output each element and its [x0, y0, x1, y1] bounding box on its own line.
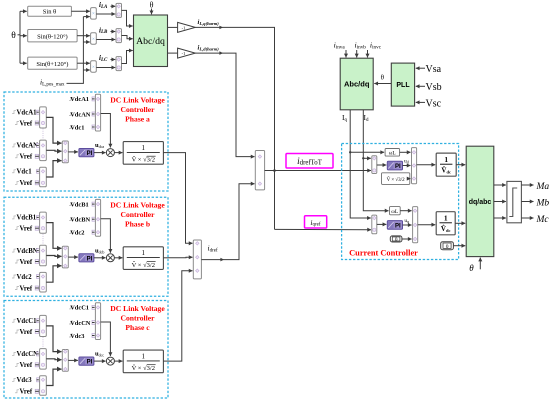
wire Iq branch to wL d	[350, 151, 384, 153]
wire mux to PI a	[68, 151, 78, 153]
svg-text:Sin(θ+120°): Sin(θ+120°)	[36, 61, 68, 68]
wire Vref3 to sum	[35, 182, 39, 184]
product block P1	[91, 8, 97, 20]
wire Vref2 to sum	[35, 261, 39, 263]
svg-text:θ: θ	[11, 31, 16, 41]
PI block c	[79, 357, 94, 365]
wire iLqharm	[195, 27, 274, 229]
wire iLC arrow	[111, 59, 116, 61]
label Vdc1 phase a	[12, 170, 16, 173]
wire idrefToT	[265, 170, 371, 172]
svg-text:1: 1	[444, 155, 448, 164]
wire gain d to dqabc	[456, 164, 465, 166]
label mini VdcC1 c	[69, 306, 73, 309]
wire dqabc out1	[494, 184, 506, 186]
label box iqref	[305, 216, 327, 228]
adder d	[412, 148, 417, 184]
block wL d	[385, 149, 400, 157]
wire sum3 to mux c	[46, 369, 61, 385]
wire iinvc in	[367, 50, 369, 57]
svg-text:VdcB1: VdcB1	[70, 201, 88, 208]
svg-text:ωL: ωL	[391, 209, 399, 215]
mini mux block b	[95, 199, 100, 236]
wire ff to adder	[409, 178, 412, 180]
wire VdcAN to sum	[37, 144, 39, 146]
wire Vsa	[416, 67, 425, 69]
sum block d	[372, 156, 377, 174]
wire mini mux to mult a	[101, 114, 111, 148]
wire Vsb	[416, 85, 425, 87]
wire Id branch to dsum	[363, 157, 371, 159]
wire mini VdcCN c	[92, 322, 95, 324]
wire P1 to SA	[96, 13, 115, 15]
label Vref3 phase c	[15, 390, 19, 393]
svg-text:Current Controller: Current Controller	[349, 248, 418, 257]
wire sum2 to mux b	[46, 255, 61, 258]
label Vref1 phase c	[15, 330, 19, 333]
wire Iq vertical	[350, 110, 371, 218]
wire gainbox out a	[163, 152, 168, 154]
svg-text:Vref: Vref	[20, 362, 33, 369]
PI block a	[79, 149, 94, 157]
wire theta into dqabc	[479, 258, 481, 270]
svg-text:Controller: Controller	[120, 105, 155, 114]
wire Abcdq1 out q	[168, 26, 178, 28]
gain -1 d	[178, 48, 196, 58]
wire Ma	[521, 184, 533, 186]
wire VdcBN to sum	[37, 250, 39, 252]
svg-text:DC Link Voltage: DC Link Voltage	[110, 304, 165, 313]
svg-text:Vref: Vref	[20, 329, 33, 336]
product block P3	[91, 61, 97, 72]
svg-text:PI: PI	[87, 256, 93, 262]
svg-text:×: ×	[92, 12, 95, 17]
svg-text:Vsa: Vsa	[426, 64, 442, 75]
block Sin theta	[28, 6, 72, 16]
svg-text:iL,d(harm): iL,d(harm)	[198, 45, 220, 52]
label Vref3 phase a	[15, 181, 19, 184]
mux block a	[62, 141, 68, 163]
gain 1/Vdc d	[436, 153, 456, 176]
wire idref return	[201, 184, 254, 260]
svg-text:VdcC1: VdcC1	[70, 305, 89, 312]
dashed box current controller	[342, 144, 459, 260]
wire sum2 to mux c	[46, 358, 61, 361]
wire SB to Abcdq in2	[122, 36, 133, 39]
svg-text:PLL: PLL	[396, 82, 410, 89]
wire theta into Abcdq1	[151, 9, 153, 15]
wire phase a out to mux	[168, 153, 193, 244]
wire Vref1 to sum	[35, 227, 39, 229]
svg-text:0: 0	[395, 237, 398, 243]
label Vref3 phase b	[15, 287, 19, 290]
wire Vsc	[416, 101, 425, 103]
label VdcCN phase c	[12, 352, 16, 355]
svg-text:Vref: Vref	[20, 120, 33, 127]
wire mult to gainbox a	[114, 152, 122, 154]
wire Vref1 to sum	[35, 122, 39, 124]
wire mux to PI b	[68, 256, 78, 258]
label VdcB1 phase b	[12, 216, 16, 219]
wire mini VdcB1 b	[92, 203, 95, 205]
svg-text:Mc: Mc	[536, 215, 550, 225]
wire sum1 to mux c	[46, 326, 61, 352]
wire PI to mult b	[94, 257, 106, 259]
svg-text:Mb: Mb	[536, 199, 550, 209]
wire wL d to adder	[400, 151, 411, 153]
svg-text:udca: udca	[95, 142, 104, 149]
transform block dq/abc	[466, 146, 494, 256]
svg-text:VdcBN: VdcBN	[70, 217, 90, 224]
svg-text:V̂ × √3/2: V̂ × √3/2	[387, 177, 405, 183]
PI block q	[387, 221, 402, 230]
wire theta to branches	[18, 34, 21, 36]
wire P3 to SC	[96, 67, 115, 69]
wire phase c out to mux	[168, 271, 193, 361]
wire dsum to PI d	[377, 164, 387, 166]
label mini Vdc1 a	[69, 126, 73, 129]
svg-text:V̂ × √3/2: V̂ × √3/2	[132, 156, 155, 164]
wire Vref3 to sum	[35, 390, 39, 392]
wire sin1 to product1	[71, 10, 89, 12]
wire VdcA1 to sum	[37, 111, 39, 113]
svg-text:Phase a: Phase a	[125, 115, 150, 124]
svg-text:Vdc3: Vdc3	[17, 377, 33, 384]
block Sin(theta-120)	[28, 30, 77, 42]
svg-text:Vdc3: Vdc3	[70, 333, 84, 340]
wire SC to Abcdq in3	[122, 51, 133, 64]
wire dqabc out3	[494, 217, 506, 219]
wire Abcdq1 out d	[168, 52, 178, 54]
svg-text:-1: -1	[182, 26, 186, 31]
label mini VdcB1 b	[69, 203, 73, 206]
gain -1 q	[178, 22, 196, 32]
label Vdc3 phase c	[12, 378, 16, 381]
svg-text:Controller: Controller	[120, 210, 155, 219]
mux block b	[62, 246, 68, 268]
wire gainbox out b	[163, 257, 168, 259]
wire iLpos_max distribution	[67, 17, 84, 84]
wire PI to mult a	[94, 152, 106, 154]
label Vref1 phase a	[15, 122, 19, 125]
svg-text:Phase c: Phase c	[125, 323, 150, 332]
sum block SB	[116, 29, 122, 43]
wire iLB arrow	[111, 31, 116, 33]
gain box 1/(Vsqrt32) c	[123, 350, 163, 373]
sum block b3	[40, 272, 47, 292]
transform block Abc/dq 2	[340, 58, 373, 110]
label VdcC1 phase c	[12, 319, 16, 322]
mux idref	[193, 240, 201, 279]
wire PLL to Abcdq2	[374, 83, 391, 85]
wire adder q to gain	[418, 224, 436, 226]
wire VdcC1 to sum	[37, 320, 39, 322]
svg-text:VdcA1: VdcA1	[70, 96, 89, 103]
sum block SA	[116, 3, 122, 17]
svg-text:Vref: Vref	[20, 285, 33, 292]
wire sum3 to mux a	[46, 161, 61, 177]
svg-text:DC Link Voltage: DC Link Voltage	[110, 201, 165, 210]
svg-text:V̂ × √3/2: V̂ × √3/2	[132, 261, 155, 269]
wire mini mux to mult c	[101, 322, 111, 356]
svg-text:Phase b: Phase b	[125, 220, 150, 229]
wire sin3 to product3	[77, 62, 90, 64]
block Sin(theta+120)	[28, 57, 77, 69]
wire mini Vdc1 a	[92, 126, 95, 128]
adder q	[413, 207, 418, 243]
wire adder d to gain	[417, 164, 436, 166]
svg-text:1: 1	[142, 249, 146, 257]
wire sum2 to mux a	[46, 149, 61, 152]
wire dqabc out2	[494, 201, 506, 203]
sum block q	[372, 215, 377, 234]
svg-text:V̂ × √3/2: V̂ × √3/2	[132, 364, 155, 372]
label mini Vdc2 b	[69, 231, 73, 234]
sum block a3	[40, 167, 47, 187]
label mini Vdc3 c	[69, 334, 73, 337]
wire gainbox out c	[163, 360, 168, 362]
label VdcBN phase b	[12, 249, 16, 252]
svg-text:VdcBN: VdcBN	[17, 248, 38, 255]
svg-text:-1: -1	[182, 51, 186, 56]
wire PI d to adder	[403, 165, 411, 167]
wire iinvb in	[356, 50, 358, 57]
svg-text:VdcB1: VdcB1	[17, 215, 37, 222]
block Vsqrt32 ff	[382, 173, 410, 185]
label mini VdcBN b	[69, 218, 73, 221]
svg-text:×: ×	[92, 65, 95, 70]
svg-text:PI: PI	[395, 224, 401, 230]
svg-text:θ: θ	[469, 263, 474, 273]
wire Vref3 to sum	[35, 287, 39, 289]
svg-text:Abc/dq: Abc/dq	[344, 80, 370, 89]
svg-text:PI: PI	[87, 360, 93, 366]
svg-text:VdcA1: VdcA1	[17, 110, 38, 117]
label VdcAN phase a	[12, 144, 16, 147]
label VdcA1 phase a	[12, 111, 16, 114]
wire mini Vdc2 b	[92, 231, 95, 233]
wire Vdc1 to sum	[37, 170, 39, 172]
label Vref2 phase b	[15, 260, 19, 263]
mini mux block a	[95, 94, 100, 131]
wire phase b out to mux	[168, 256, 193, 259]
mult circle a	[106, 149, 114, 157]
label Vref2 phase c	[15, 363, 19, 366]
svg-text:VdcC1: VdcC1	[17, 318, 38, 325]
svg-text:Vdc1: Vdc1	[70, 124, 84, 131]
wire SA to Abcdq in1	[122, 10, 133, 26]
gain box 1/(Vsqrt32) a	[123, 142, 163, 165]
wire Mb	[521, 201, 533, 203]
svg-text:Vref: Vref	[20, 259, 33, 266]
block zero q	[390, 236, 402, 242]
wire iqref horizontal	[275, 228, 372, 230]
svg-text:dq/abc: dq/abc	[469, 199, 492, 206]
block PLL	[391, 63, 414, 106]
svg-text:Ma: Ma	[536, 182, 550, 192]
svg-text:PI: PI	[395, 164, 401, 170]
wire PI to mult c	[94, 360, 106, 362]
svg-text:VdcCN: VdcCN	[17, 351, 39, 358]
wire mini Vdc3 c	[92, 335, 95, 337]
svg-text:Vsc: Vsc	[426, 98, 442, 109]
wire sin2 to product2	[77, 35, 90, 37]
wire zero q to adder	[402, 238, 412, 240]
block wL q	[390, 207, 401, 215]
svg-text:Vdc1: Vdc1	[17, 169, 33, 176]
svg-text:Vref: Vref	[20, 389, 33, 396]
wire zero2 to dqabc	[453, 245, 465, 247]
svg-text:Vdc2: Vdc2	[70, 230, 84, 237]
wire mini mux to mult b	[101, 219, 111, 253]
wire qsum to PI q	[377, 223, 387, 225]
wire sum1 to mux a	[46, 117, 61, 143]
mult circle c	[106, 357, 114, 365]
sum block a2	[40, 140, 47, 161]
gain 1/Vdc q	[436, 212, 455, 235]
wire mini VdcC1 c	[92, 306, 95, 308]
svg-text:1: 1	[142, 352, 146, 360]
sum block b1	[40, 212, 47, 233]
wire mini VdcBN b	[92, 218, 95, 220]
wire Vref2 to sum	[35, 364, 39, 366]
svg-text:×: ×	[92, 37, 95, 42]
sum block SC	[116, 57, 122, 71]
mini mux block c	[95, 303, 100, 340]
svg-text:udcc: udcc	[95, 351, 104, 358]
wire mux to PI c	[68, 359, 78, 361]
wire iLA arrow	[111, 5, 116, 7]
svg-text:Sin(θ-120°): Sin(θ-120°)	[37, 34, 68, 41]
svg-text:Abc/dq: Abc/dq	[136, 36, 165, 47]
svg-text:1: 1	[142, 144, 146, 152]
transform block Abc/dq 1	[134, 15, 168, 67]
dotted link sums c	[42, 337, 44, 348]
svg-text:Vdc2: Vdc2	[17, 274, 33, 281]
label mini VdcAN a	[69, 113, 73, 116]
wire iLdharm	[195, 53, 254, 157]
label Vref2 phase a	[15, 155, 19, 158]
svg-text:Controller: Controller	[120, 314, 155, 323]
dashed box DC controller phase a	[4, 92, 168, 191]
svg-text:Vref: Vref	[20, 226, 33, 233]
wire sum3 to mux b	[46, 266, 61, 282]
svg-text:PI: PI	[87, 151, 93, 157]
mult circle b	[106, 254, 114, 262]
wire iinva in	[345, 50, 347, 57]
label mini VdcA1 a	[69, 97, 73, 100]
wire wL q to adder	[400, 210, 411, 212]
sum block a1	[40, 107, 47, 128]
mux idref+harm	[255, 151, 264, 190]
dotted link sums a	[42, 129, 44, 140]
wire Vdc2 to sum	[37, 276, 39, 278]
dotted link sums b	[42, 234, 44, 245]
dashed box DC controller phase b	[4, 197, 168, 296]
svg-text:ud: ud	[404, 159, 409, 165]
wire VdcCN to sum	[37, 353, 39, 355]
svg-text:iL,q(harm): iL,q(harm)	[198, 19, 220, 26]
svg-text:1: 1	[444, 213, 448, 222]
PI block d	[387, 161, 402, 170]
wire mini VdcAN a	[92, 113, 95, 115]
wire gain q to dqabc	[455, 222, 465, 224]
wire mult to gainbox c	[114, 360, 122, 362]
product block P2	[91, 33, 97, 45]
sum block c1	[40, 315, 47, 336]
label Vref1 phase b	[15, 227, 19, 230]
wire sum1 to mux b	[46, 223, 61, 249]
svg-text:Vsb: Vsb	[426, 82, 442, 93]
svg-text:Sin θ: Sin θ	[43, 8, 56, 15]
gain box 1/(Vsqrt32) b	[123, 247, 163, 270]
sum block c2	[40, 349, 47, 370]
svg-text:Vref: Vref	[20, 180, 33, 187]
wire Id vertical	[363, 110, 388, 211]
wire mult to gainbox b	[114, 257, 122, 259]
svg-text:θ: θ	[150, 1, 154, 10]
wire Vref2 to sum	[35, 155, 39, 157]
sum block c3	[40, 376, 47, 396]
svg-text:ωL: ωL	[389, 151, 397, 157]
wire Vref1 to sum	[35, 331, 39, 333]
label mini VdcCN c	[69, 321, 73, 324]
svg-text:uq: uq	[404, 218, 409, 224]
sum block b2	[40, 245, 47, 265]
PI block b	[79, 254, 94, 262]
label box idrefToT	[286, 154, 333, 169]
dashed box DC controller phase c	[4, 301, 168, 399]
svg-text:DC Link Voltage: DC Link Voltage	[110, 96, 165, 105]
mux block c	[62, 350, 68, 372]
svg-text:VdcAN: VdcAN	[17, 143, 39, 150]
svg-text:VdcCN: VdcCN	[70, 320, 91, 327]
svg-text:0: 0	[446, 244, 449, 250]
wire Mc	[521, 217, 533, 219]
svg-text:udcb: udcb	[95, 247, 104, 254]
svg-text:Vref: Vref	[20, 154, 33, 161]
wire Vdc3 to sum	[37, 379, 39, 381]
demux block	[507, 181, 522, 222]
svg-text:VdcAN: VdcAN	[70, 111, 91, 118]
label Vdc2 phase b	[12, 275, 16, 278]
wire mini VdcA1 a	[92, 98, 95, 100]
block zero 2	[441, 242, 454, 250]
wire PI q to adder	[403, 224, 412, 226]
wire P2 to SB	[96, 39, 115, 41]
wire VdcB1 to sum	[37, 216, 39, 218]
